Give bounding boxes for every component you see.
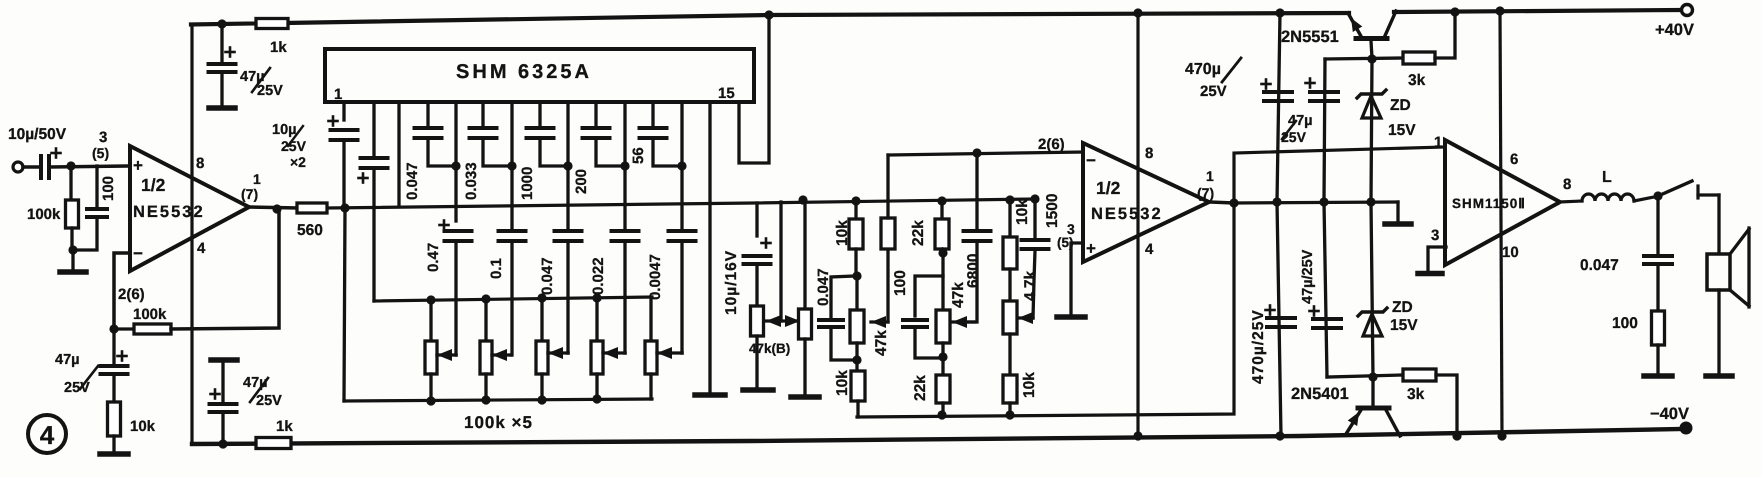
svg-text:6: 6	[1510, 151, 1518, 168]
svg-text:+: +	[1086, 239, 1096, 258]
svg-text:(7): (7)	[241, 186, 258, 202]
svg-text:10: 10	[1502, 244, 1519, 261]
wiper VR3	[548, 351, 568, 354]
svg-text:4.7k: 4.7k	[1022, 270, 1039, 301]
junction pin15 on top rail	[764, 10, 773, 19]
wire signal node down to pot bus	[344, 208, 345, 401]
wiper VR1	[437, 353, 456, 356]
junction rail2 top	[1133, 8, 1142, 17]
svg-text:1000: 1000	[519, 167, 536, 200]
capacitor C24 47u/25V upper	[1324, 59, 1325, 202]
junction B2 presence	[1005, 410, 1014, 419]
speaker SP	[1707, 254, 1730, 290]
wiper VR4	[603, 351, 625, 354]
wiper VR6 to signal	[765, 319, 800, 322]
capacitor C16 56 IC pin12	[651, 102, 654, 126]
svg-text:1: 1	[1434, 134, 1442, 151]
svg-text:10µ: 10µ	[272, 122, 296, 138]
junction B2 treble	[937, 410, 946, 419]
resistor R5 1k bottom rail	[256, 438, 291, 449]
svg-text:ZD: ZD	[1390, 97, 1411, 114]
svg-text:25V: 25V	[281, 138, 307, 154]
junction top rail 470u	[1275, 8, 1284, 17]
wire pin3 to ground	[1428, 247, 1446, 271]
capacitor C2 100 input	[95, 166, 98, 207]
svg-text:1k: 1k	[270, 39, 287, 56]
capacitor C10 0.033 IC pin6	[481, 102, 484, 126]
junction signal to bass R8	[851, 196, 860, 205]
resistor R9 bass wiper to T1	[886, 249, 889, 322]
svg-text:+: +	[133, 156, 143, 175]
svg-text:10k: 10k	[834, 220, 851, 246]
node output	[1653, 191, 1662, 200]
svg-text:4: 4	[1145, 241, 1154, 258]
svg-text:100k: 100k	[133, 306, 167, 323]
ground IC pin14	[695, 392, 725, 398]
capacitor C7 10u/25V IC pin2	[372, 102, 375, 156]
svg-text:+40V: +40V	[1655, 21, 1694, 39]
resistor R6 560	[297, 203, 327, 213]
node op-amp2 output	[1229, 198, 1238, 207]
wire IC pin13 vertical	[680, 102, 683, 166]
svg-text:100k: 100k	[27, 206, 61, 223]
svg-text:22k: 22k	[910, 220, 927, 246]
wire speaker to ground	[1717, 290, 1720, 374]
svg-text:0.022: 0.022	[590, 257, 607, 295]
junction bottom rail at C5	[218, 439, 227, 448]
ground VR6	[743, 387, 773, 393]
svg-text:100: 100	[1612, 315, 1638, 332]
transistor Q1 2N5551	[1348, 13, 1362, 38]
node feedback op-amp1	[109, 324, 118, 333]
capacitor C20 100 treble shunt	[915, 276, 943, 316]
junction T1 to C21	[972, 148, 981, 157]
svg-text:1: 1	[253, 171, 261, 187]
junction base 2N5551	[1367, 54, 1376, 63]
wire midline bias reference	[1234, 202, 1398, 203]
svg-text:25V: 25V	[1200, 83, 1227, 100]
junction rail2 bottom	[1133, 431, 1142, 440]
junction bottom rail SHM1150	[1497, 431, 1506, 440]
capacitor C11 0.1 series pin7	[510, 166, 513, 229]
wire IC pin5 vertical	[454, 102, 457, 166]
svg-text:0.033: 0.033	[463, 162, 480, 200]
svg-text:6800: 6800	[965, 254, 982, 288]
wire IC pin7 vertical	[510, 102, 513, 166]
svg-text:0.47: 0.47	[425, 243, 442, 272]
svg-text:10µ/16V: 10µ/16V	[723, 250, 740, 315]
wire C1 to node	[51, 166, 127, 167]
capacitor C13 0.047 series pin9	[566, 166, 569, 229]
wire output up to SHM1150 pin1	[1234, 147, 1445, 203]
svg-text:15V: 15V	[1388, 122, 1416, 139]
svg-text:SHM 6325A: SHM 6325A	[456, 61, 592, 83]
svg-text:1/2: 1/2	[1096, 178, 1121, 198]
junction midline zener	[1366, 197, 1375, 206]
wire inverting input op-amp1	[114, 253, 130, 326]
svg-text:−: −	[133, 244, 143, 263]
potentiometer VR3 100k	[540, 298, 543, 341]
svg-text:0.0047: 0.0047	[647, 254, 664, 300]
supply rail vertical through SHM1150 pins 6 and 10	[1500, 11, 1502, 436]
svg-text:100: 100	[100, 176, 117, 201]
resistor R1 100k input	[69, 168, 72, 200]
junction base 2N5401	[1368, 372, 1377, 381]
svg-text:L: L	[1602, 169, 1612, 186]
svg-text:560: 560	[297, 222, 323, 239]
potentiometer VR6 47k(B) volume	[751, 306, 764, 336]
svg-text:8: 8	[196, 155, 204, 172]
resistor R2 100k feedback	[114, 327, 134, 330]
terminal +40V	[1682, 5, 1693, 16]
potentiometer VR1 100k	[429, 300, 432, 341]
wire top rail +40V segment	[1394, 10, 1680, 12]
supply rail vertical through op-amp2 pins 8 and 4	[1136, 12, 1139, 436]
wire feedback to output	[171, 211, 279, 329]
svg-text:3k: 3k	[1407, 386, 1425, 403]
potentiometer VR2 100k	[484, 299, 487, 341]
ground zobel	[1644, 373, 1672, 379]
svg-text:470µ: 470µ	[1185, 61, 1221, 78]
capacitor C14 200 IC pin10	[594, 102, 597, 126]
junction midline 47u	[1319, 197, 1328, 206]
svg-text:25V: 25V	[1281, 129, 1307, 145]
junction pin9	[563, 161, 572, 170]
junction signal to R7	[798, 195, 807, 204]
potentiometer VR5 100k	[649, 297, 652, 341]
svg-text:1: 1	[334, 86, 342, 103]
junction signal to C22	[1030, 194, 1039, 203]
wire bottom rail -40V	[192, 429, 1681, 444]
wiper VR9	[1018, 316, 1033, 319]
svg-text:47µ/25V: 47µ/25V	[1300, 249, 1316, 304]
svg-text:56: 56	[630, 147, 647, 164]
wire B2 tone bottom bus to op-amp2 output	[857, 205, 1234, 417]
capacitor C15 0.022 series pin11	[623, 166, 626, 229]
node + ground input	[68, 245, 77, 254]
wire IC pin14 to ground	[708, 102, 711, 393]
capacitor C3 47u/25V at op-amp1 bias	[112, 332, 115, 364]
switch SW output	[1658, 181, 1692, 196]
svg-text:2(6): 2(6)	[1038, 136, 1065, 153]
node pin1 cap to signal wire	[340, 203, 349, 212]
svg-text:100: 100	[892, 270, 909, 296]
ground speaker	[1706, 373, 1732, 379]
svg-text:100k ×5: 100k ×5	[464, 413, 533, 432]
svg-text:10µ/50V: 10µ/50V	[8, 126, 67, 143]
junction bottom rail 470u	[1275, 431, 1284, 440]
capacitor C27 0.047 zobel	[1656, 196, 1659, 254]
wire pot upper bus	[374, 297, 652, 301]
svg-text:8: 8	[1563, 176, 1571, 193]
wiper VR2	[492, 353, 511, 356]
capacitor C21 6800 treble series	[975, 153, 978, 229]
ground midline	[1396, 202, 1399, 222]
zener ZD1 15V upper	[1371, 59, 1372, 202]
capacitor C18 10u/16V coupling	[755, 203, 758, 236]
svg-text:0.047: 0.047	[815, 268, 832, 306]
wire input to C1	[23, 165, 38, 169]
capacitor C1 10u/50V input coupling	[39, 156, 43, 178]
svg-text:47k(B): 47k(B)	[749, 341, 790, 356]
resistor R16 3k lower	[1403, 369, 1436, 381]
node op-amp1 output	[272, 204, 281, 213]
resistor R3 10k op-amp1 bias	[108, 402, 121, 436]
capacitor C23 470u/25V upper	[1277, 13, 1280, 202]
svg-text:3k: 3k	[1408, 72, 1426, 89]
svg-text:2N5401: 2N5401	[1291, 385, 1349, 403]
svg-text:8: 8	[1145, 145, 1153, 162]
svg-text:3: 3	[1431, 227, 1439, 244]
svg-text:1/2: 1/2	[141, 175, 166, 195]
input terminal J1	[13, 162, 23, 172]
junction pin5	[451, 161, 460, 170]
capacitor C8 0.047 IC pin4	[426, 102, 429, 126]
junction signal to presence R13	[1005, 195, 1014, 204]
resistor R7 input shunt	[803, 200, 806, 309]
capacitor C9 0.47 series pin5	[454, 166, 457, 221]
resistor R14 10k presence bottom	[1003, 375, 1017, 403]
svg-text:NE5532: NE5532	[133, 203, 205, 221]
svg-text:0.1: 0.1	[488, 258, 505, 279]
wire base node 2N5551	[1325, 58, 1403, 59]
svg-text:22k: 22k	[912, 375, 929, 401]
svg-text:15V: 15V	[1390, 317, 1418, 334]
wire pot lower bus	[344, 399, 652, 401]
svg-text:4: 4	[40, 420, 55, 450]
wire T1 feedback bus to op-amp2 inverting	[888, 152, 1083, 155]
junction pin13	[677, 161, 686, 170]
junction pin7	[507, 161, 516, 170]
transistor Q2 2N5401	[1371, 377, 1374, 406]
wire IC pin11 vertical	[623, 102, 626, 166]
svg-text:0.047: 0.047	[1580, 257, 1619, 274]
capacitor C19 0.047 bass shunt	[831, 276, 855, 317]
svg-text:2(6): 2(6)	[118, 286, 145, 303]
capacitor C22 1500 presence series	[1033, 199, 1036, 238]
capacitor C17 0.0047 series pin13	[680, 166, 683, 229]
node treble lower	[938, 352, 947, 361]
svg-text:0.047: 0.047	[539, 257, 556, 295]
resistor R15 3k upper	[1403, 52, 1435, 64]
supply rail vertical through op-amp1 pins 8 and 4	[190, 25, 193, 445]
svg-text:10k: 10k	[834, 370, 851, 396]
svg-text:1500: 1500	[1044, 194, 1061, 228]
potentiometer VR9 4.7k presence	[1003, 301, 1017, 334]
ground above C5	[211, 357, 237, 363]
node bass lower	[852, 355, 861, 364]
power module U3 SHM1150II	[1445, 140, 1560, 265]
wire 3k lower to rail	[1436, 375, 1457, 436]
junction pin11	[620, 161, 629, 170]
ground op-amp1 bias	[100, 451, 128, 457]
svg-text:25V: 25V	[64, 380, 90, 396]
junction signal to treble R11	[937, 196, 946, 205]
svg-text:10k: 10k	[1014, 199, 1031, 225]
wiper VR8	[952, 320, 975, 323]
wire noninverting op-amp2 to ground	[1071, 243, 1083, 315]
signal wire from 560 to tone network	[327, 199, 1035, 208]
capacitor C6 10u/25V IC pin1	[342, 102, 345, 120]
svg-text:×2: ×2	[290, 154, 306, 170]
svg-text:ZD: ZD	[1392, 299, 1413, 316]
ground R7	[791, 394, 819, 400]
svg-text:47µ: 47µ	[55, 352, 79, 368]
wire 3k to +40V rail	[1435, 13, 1455, 58]
svg-text:10k: 10k	[1021, 372, 1038, 398]
capacitor C26 47u/25V lower	[1324, 202, 1327, 377]
svg-text:15: 15	[718, 85, 735, 102]
junction rail SHM1150	[1495, 6, 1504, 15]
svg-text:200: 200	[573, 169, 590, 194]
capacitor C25 470u/25V lower	[1277, 202, 1281, 436]
node input	[66, 161, 75, 170]
node A bass	[852, 271, 861, 280]
svg-text:−40V: −40V	[1650, 405, 1689, 423]
figure number 4	[28, 415, 66, 453]
wiper VR7	[871, 320, 888, 323]
zener ZD2 15V lower	[1371, 202, 1373, 377]
svg-text:10k: 10k	[130, 418, 156, 435]
ground op-amp2 noninverting	[1057, 314, 1085, 320]
potentiometer VR7 47k bass	[855, 277, 858, 310]
svg-text:(5): (5)	[92, 145, 109, 161]
wire IC pin15 to top rail	[739, 15, 769, 163]
wire op-amp1 output	[249, 207, 297, 208]
inductor L output	[1560, 201, 1582, 202]
svg-text:SHM1150Ⅱ: SHM1150Ⅱ	[1452, 196, 1526, 211]
resistor R8 10k bass	[854, 201, 857, 219]
svg-text:4: 4	[197, 240, 206, 257]
IC U2 SHM6325A	[325, 49, 754, 102]
svg-text:2N5551: 2N5551	[1281, 28, 1339, 46]
junction top rail at C4	[217, 19, 226, 28]
wire IC pin9 vertical	[566, 102, 569, 166]
svg-text:NE5532: NE5532	[1091, 205, 1163, 223]
resistor R4 1k top rail	[256, 19, 288, 29]
svg-text:0.047: 0.047	[404, 162, 421, 200]
wire top rail regulated segment	[191, 13, 1349, 25]
wire IC pin3 to signal	[397, 102, 400, 206]
junction midline 470u	[1272, 197, 1281, 206]
capacitor C12 1000 IC pin8	[538, 102, 541, 126]
svg-text:3: 3	[99, 129, 107, 146]
terminal -40V	[1681, 423, 1691, 433]
junction 3k rail	[1450, 7, 1459, 16]
wire base node 2N5401	[1327, 375, 1403, 377]
wire op-amp2 output	[1209, 202, 1236, 203]
capacitor C4 47u/25V top-left decoupling	[220, 26, 223, 62]
junction 3k bottom rail	[1452, 431, 1461, 440]
node B treble	[938, 248, 947, 257]
resistor R11 22k treble	[940, 201, 943, 219]
resistor R17 100 zobel	[1652, 311, 1665, 345]
op-amp U1b 1/2 NE5532	[1083, 143, 1209, 262]
svg-text:47k: 47k	[873, 330, 890, 356]
ground SHM1150 pin3	[1418, 271, 1442, 277]
resistor R12 22k treble bottom	[936, 375, 950, 403]
svg-text:−: −	[1086, 151, 1096, 170]
svg-text:470µ/25V: 470µ/25V	[1250, 309, 1267, 384]
resistor R13 10k presence	[1008, 200, 1011, 237]
wiper VR5	[657, 351, 682, 354]
capacitor C5 47u/25V bottom decoupling	[221, 414, 224, 442]
svg-text:25V: 25V	[256, 393, 282, 409]
svg-text:25V: 25V	[257, 83, 283, 99]
potentiometer VR4 100k	[595, 298, 598, 341]
svg-text:(7): (7)	[1197, 185, 1214, 201]
potentiometer VR8 47k treble	[941, 253, 944, 310]
svg-text:1: 1	[1206, 168, 1214, 184]
svg-text:1k: 1k	[276, 418, 293, 435]
resistor R10 10k bass bottom	[851, 371, 865, 401]
op-amp U1a 1/2 NE5532	[130, 146, 249, 271]
